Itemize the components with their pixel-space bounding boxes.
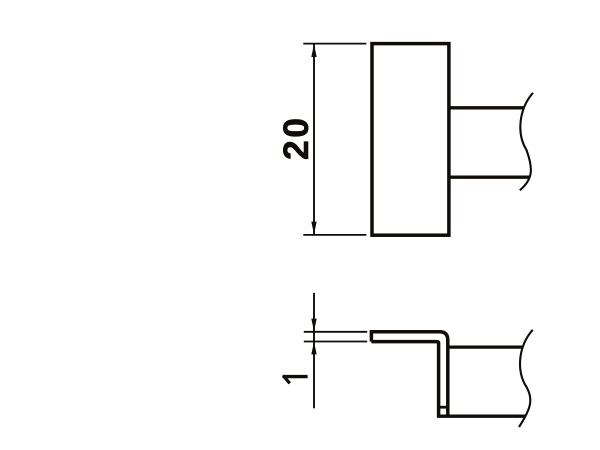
break line (top view) <box>520 93 533 191</box>
svg-text:20: 20 <box>276 115 316 160</box>
arrowhead down <box>311 222 316 235</box>
panel bottom line <box>437 415 525 418</box>
extension line lower (1) <box>304 341 367 343</box>
dimension line 20 <box>313 44 315 234</box>
label 1 (digit one, rotated) <box>283 376 308 384</box>
web end cross line <box>437 406 449 409</box>
panel top line <box>448 345 522 348</box>
body rectangle <box>372 44 449 236</box>
extension line bottom <box>303 234 366 236</box>
dimension line 1 <box>313 293 315 408</box>
arrowhead up <box>311 44 316 57</box>
extension line upper (1) <box>304 331 367 333</box>
arrowhead down to upper ext <box>311 319 316 332</box>
shaft bottom line <box>449 176 529 179</box>
sheet inner contour <box>371 342 438 417</box>
shaft top line <box>449 106 524 109</box>
extension line top <box>303 43 366 45</box>
sheet outer contour <box>371 332 447 416</box>
arrowhead up to lower ext <box>311 342 316 355</box>
break line (section) <box>519 330 533 427</box>
